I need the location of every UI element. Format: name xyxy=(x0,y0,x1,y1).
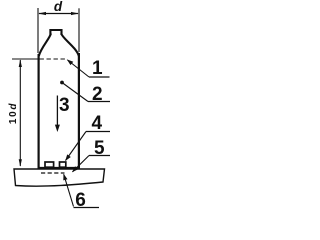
arrowhead leader 6 xyxy=(63,174,67,181)
dimension line 10d xyxy=(19,60,21,166)
underline label 5 xyxy=(89,155,110,157)
bottle bottom xyxy=(38,167,81,169)
arrowhead leader 5 xyxy=(72,166,78,172)
svg-text:3: 3 xyxy=(59,95,70,116)
leader line 5 xyxy=(73,156,90,172)
liquid level mark extension (solid, left of vessel) xyxy=(12,58,38,60)
leader line 6 xyxy=(64,174,74,206)
left body wall xyxy=(37,54,39,168)
arrowhead leader 4 xyxy=(65,154,71,161)
base plate outline xyxy=(14,169,105,186)
arrowhead top of 10d xyxy=(19,59,22,67)
right shoulder flare xyxy=(61,34,79,57)
svg-text:1: 1 xyxy=(92,58,103,79)
neck of vessel (top opening) xyxy=(50,30,61,35)
support block right (inside vessel bottom) xyxy=(60,162,66,167)
underline label 4 xyxy=(86,131,110,133)
dot at end of leader 2 xyxy=(60,81,64,85)
leader line 4 xyxy=(66,132,87,161)
extension line right of dimension d xyxy=(78,8,80,52)
underline label 6 xyxy=(74,207,100,209)
liquid level mark (dashed, inside vessel) xyxy=(40,58,67,60)
svg-text:d: d xyxy=(54,0,63,14)
hidden edge (dashed) in base plate xyxy=(41,172,65,174)
arrowhead bottom of 10d xyxy=(19,159,22,167)
dimension line d xyxy=(39,13,78,15)
arrowhead leader 1 xyxy=(67,59,74,65)
leader line 2 xyxy=(62,83,88,102)
extension line left of dimension d xyxy=(37,8,39,53)
right body wall xyxy=(78,53,80,168)
left shoulder flare xyxy=(39,34,51,57)
arrowhead left of dimension d xyxy=(38,12,46,15)
arrow 3 (direction arrow inside vessel) xyxy=(56,96,58,128)
svg-text:10d: 10d xyxy=(8,102,19,124)
leader line 1 xyxy=(68,60,90,77)
arrowhead right of dimension d xyxy=(71,12,79,15)
underline label 1 xyxy=(89,76,110,78)
underline label 2 xyxy=(88,101,110,103)
support block left (inside vessel bottom) xyxy=(45,162,54,167)
